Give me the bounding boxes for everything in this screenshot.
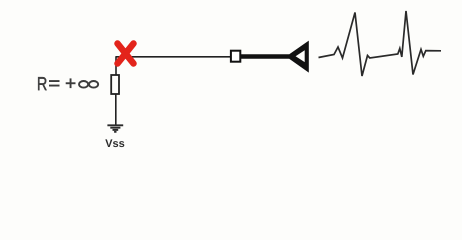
no-connection X mark xyxy=(118,44,134,64)
wire vertical corner down to resistor xyxy=(115,56,117,75)
probe connector square xyxy=(231,51,240,62)
probe tip triangle xyxy=(286,41,309,73)
wire horizontal from node to probe xyxy=(116,56,231,58)
signal waveform xyxy=(319,11,442,76)
wire resistor to ground xyxy=(115,94,117,125)
value label R=+infinity xyxy=(38,77,98,90)
probe shaft thick line xyxy=(240,54,290,59)
net label Vss xyxy=(105,139,124,147)
resistor R xyxy=(111,75,119,94)
ground symbol xyxy=(107,125,123,132)
